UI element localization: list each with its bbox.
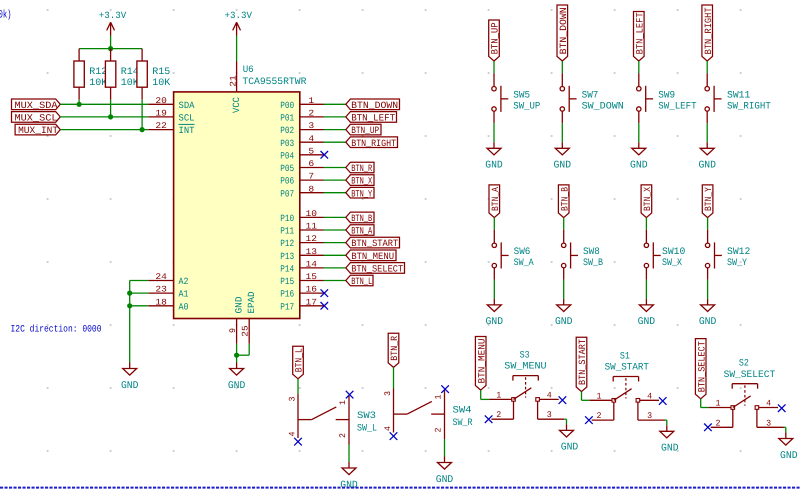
- junction +3.3V bus: [108, 46, 113, 51]
- svg-text:P13: P13: [280, 251, 294, 262]
- svg-text:1: 1: [338, 400, 348, 405]
- U6 pin 13 P13: [280, 247, 323, 262]
- svg-text:4: 4: [766, 399, 771, 409]
- wire A-bus vertical: [129, 281, 131, 363]
- pin wire lower: [707, 268, 709, 280]
- U6 pin 12 P12: [280, 234, 323, 249]
- svg-text:GND: GND: [121, 380, 139, 392]
- svg-text:17: 17: [306, 297, 318, 307]
- U6 pin 10 P10: [280, 209, 323, 224]
- svg-text:SW_B: SW_B: [583, 257, 603, 268]
- svg-text:13: 13: [306, 247, 318, 257]
- pin wire lower: [645, 268, 647, 280]
- no-connect S1 pin 2: [585, 416, 593, 424]
- global label BTN_DOWN: [557, 5, 569, 61]
- svg-text:SW_LEFT: SW_LEFT: [658, 101, 696, 112]
- svg-text:GND: GND: [233, 296, 244, 313]
- svg-text:SW_Y: SW_Y: [727, 257, 747, 268]
- svg-text:EPAD: EPAD: [246, 291, 257, 313]
- svg-text:BTN_START: BTN_START: [577, 339, 588, 385]
- ground (SW8): [555, 299, 573, 328]
- svg-text:5: 5: [308, 146, 314, 156]
- U6 pin 3 P02: [280, 121, 323, 136]
- wire switch to GND: [493, 280, 495, 299]
- pin wire upper: [707, 230, 709, 243]
- wire BTN_RIGHT: [324, 141, 346, 143]
- svg-text:4: 4: [288, 432, 298, 437]
- svg-text:BTN_Y: BTN_Y: [703, 187, 714, 211]
- wire S2 pin3 to GND: [784, 427, 786, 432]
- wire BTN_Y: [324, 192, 346, 194]
- wire BTN_UP to switch: [493, 61, 495, 73]
- wire BTN_A: [324, 229, 346, 231]
- svg-text:BTN_DOWN: BTN_DOWN: [558, 7, 569, 54]
- svg-text:GND: GND: [638, 316, 656, 328]
- wire BTN_UP: [324, 129, 346, 131]
- svg-text:SW_A: SW_A: [514, 257, 534, 268]
- svg-text:24: 24: [155, 272, 167, 282]
- switch SW8 SW_B: [562, 242, 604, 268]
- no-connect P17: [321, 302, 329, 310]
- U6 pin 25 EPAD: [241, 291, 257, 344]
- U6 pin 1 P00: [280, 96, 323, 111]
- svg-text:P11: P11: [280, 226, 294, 237]
- svg-text:P06: P06: [280, 176, 294, 187]
- global label BTN_A: [346, 225, 374, 237]
- global label BTN_MENU: [475, 337, 487, 391]
- ground (A pins): [121, 363, 139, 392]
- svg-text:SW3: SW3: [357, 410, 376, 421]
- junction MUX_INT/R15: [140, 127, 145, 132]
- resistor R15 10K: [137, 49, 171, 130]
- pin wire lower: [493, 111, 495, 123]
- global label BTN_R: [388, 333, 400, 367]
- svg-text:8: 8: [308, 184, 314, 194]
- svg-text:2: 2: [716, 418, 721, 428]
- svg-text:SW12: SW12: [727, 246, 750, 257]
- svg-text:+3.3V: +3.3V: [99, 10, 127, 21]
- svg-text:0k): 0k): [0, 10, 12, 22]
- wire BTN_A to switch: [493, 218, 495, 230]
- wire BTN_L: [324, 280, 346, 282]
- ground (S2): [779, 433, 798, 462]
- svg-text:R15: R15: [152, 66, 170, 77]
- global label BTN_START: [346, 237, 400, 249]
- U6 pin 4 P03: [280, 134, 323, 149]
- no-connect S2 pin 4: [778, 404, 786, 412]
- wire switch to GND: [563, 280, 565, 299]
- svg-text:BTN_RIGHT: BTN_RIGHT: [703, 7, 714, 54]
- global label BTN_RIGHT: [702, 5, 714, 61]
- svg-text:SW7: SW7: [582, 90, 599, 101]
- svg-text:BTN_LEFT: BTN_LEFT: [634, 12, 645, 54]
- svg-text:BTN_R: BTN_R: [389, 336, 400, 361]
- svg-text:11: 11: [306, 222, 318, 232]
- wire BTN_MENU to switch pin1: [481, 390, 490, 399]
- switch SW9 SW_LEFT: [637, 86, 697, 112]
- svg-text:4: 4: [308, 134, 314, 144]
- wire S3 pin3 to GND: [564, 419, 566, 424]
- pin wire lower: [561, 111, 563, 123]
- svg-text:SW_MENU: SW_MENU: [504, 361, 546, 372]
- U6 pin 5 P04: [280, 146, 323, 161]
- wire U6 GND pin: [236, 344, 238, 363]
- svg-text:19: 19: [155, 109, 167, 119]
- wire A2: [130, 280, 149, 282]
- global label BTN_X: [346, 175, 374, 187]
- note text I2C direction: 0000: [11, 323, 102, 334]
- svg-text:BTN_MENU: BTN_MENU: [351, 251, 394, 262]
- svg-text:INT: INT: [179, 125, 195, 136]
- svg-text:7: 7: [308, 172, 314, 182]
- U6 pin 2 P01: [280, 109, 323, 124]
- ground (SW5): [485, 142, 503, 171]
- svg-text:2: 2: [308, 109, 314, 119]
- junction GND/EPAD: [234, 353, 239, 358]
- no-connect S2 pin 2: [704, 424, 712, 432]
- svg-text:3: 3: [766, 418, 771, 428]
- wire SW4 pin2 to GND: [444, 439, 446, 457]
- pin wire upper: [493, 230, 495, 243]
- switch SW6 SW_A: [492, 242, 534, 268]
- global label BTN_LEFT: [346, 112, 397, 124]
- ground (SW6): [486, 299, 504, 328]
- wire BTN_L to switch: [297, 379, 299, 394]
- svg-text:23: 23: [155, 285, 167, 295]
- junction MUX_SDA/R12: [77, 102, 82, 107]
- svg-text:10K: 10K: [152, 77, 170, 88]
- wire switch to GND: [561, 123, 563, 142]
- svg-text:SW_R: SW_R: [453, 417, 473, 428]
- global label BTN_LEFT: [634, 12, 646, 62]
- global label MUX_INT: [15, 124, 60, 136]
- no-connect S3 pin 2: [485, 415, 493, 423]
- svg-text:BTN_Y: BTN_Y: [351, 188, 372, 199]
- svg-text:SW11: SW11: [727, 90, 750, 101]
- ground (SW11): [698, 142, 716, 171]
- U6 pin 24 A2: [148, 272, 188, 287]
- svg-text:P12: P12: [280, 238, 294, 249]
- svg-text:MUX_SDA: MUX_SDA: [15, 100, 58, 111]
- wire +3.3V stem: [110, 36, 112, 49]
- svg-text:10K: 10K: [121, 77, 139, 88]
- svg-text:12: 12: [306, 234, 318, 244]
- svg-text:S2: S2: [739, 358, 749, 369]
- svg-text:P17: P17: [280, 301, 294, 312]
- wire MUX_SCL: [60, 116, 148, 118]
- wire BTN_MENU: [324, 254, 346, 256]
- svg-text:P10: P10: [280, 213, 294, 224]
- svg-text:21: 21: [228, 75, 238, 87]
- svg-text:3: 3: [288, 397, 298, 402]
- svg-text:A2: A2: [179, 276, 189, 287]
- switch S2 SW_SELECT body: [709, 358, 784, 429]
- svg-text:SW_SELECT: SW_SELECT: [724, 369, 776, 380]
- global label BTN_UP: [489, 20, 501, 61]
- svg-text:BTN_L: BTN_L: [294, 348, 305, 372]
- svg-text:SW6: SW6: [514, 246, 531, 257]
- svg-text:I2C direction: 0000: I2C direction: 0000: [11, 323, 102, 334]
- wire MUX_SDA: [60, 103, 148, 105]
- svg-text:P16: P16: [280, 289, 294, 300]
- svg-text:VCC: VCC: [231, 97, 242, 113]
- ground (SW3): [340, 462, 358, 489]
- svg-text:P15: P15: [280, 276, 294, 287]
- svg-text:SW_START: SW_START: [605, 362, 650, 373]
- junction A0: [127, 303, 132, 308]
- U6 pin 16 P16: [280, 285, 323, 300]
- svg-text:P03: P03: [280, 138, 294, 149]
- pin wire upper: [638, 73, 640, 86]
- wire BTN_X: [324, 179, 346, 181]
- svg-text:4: 4: [647, 391, 652, 401]
- ground (SW4): [436, 457, 454, 486]
- U6 pin 15 P15: [280, 272, 323, 287]
- svg-text:BTN_R: BTN_R: [351, 163, 372, 174]
- no-connect SW4 pin 1: [441, 385, 449, 393]
- svg-text:S1: S1: [620, 350, 630, 361]
- svg-text:BTN_A: BTN_A: [351, 226, 372, 237]
- wire SW3 pin2 to GND: [348, 445, 350, 463]
- svg-text:SW8: SW8: [583, 246, 600, 257]
- ground (S3): [560, 424, 579, 453]
- svg-text:GND: GND: [228, 380, 246, 392]
- svg-text:9: 9: [228, 328, 238, 333]
- svg-text:MUX_SCL: MUX_SCL: [15, 113, 58, 124]
- global label BTN_Y: [702, 185, 714, 218]
- U6 pin 9 GND: [228, 296, 244, 344]
- pin wire lower: [638, 111, 640, 123]
- wire S1 pin3 to GND: [665, 420, 667, 425]
- wire BTN_R to switch: [393, 367, 395, 388]
- pin wire upper: [706, 73, 708, 86]
- global label BTN_A: [489, 185, 501, 218]
- svg-text:BTN_A: BTN_A: [490, 187, 501, 211]
- wire BTN_SELECT: [324, 267, 346, 269]
- svg-text:GND: GND: [698, 160, 716, 172]
- svg-text:6: 6: [308, 159, 314, 169]
- svg-text:1: 1: [308, 96, 314, 106]
- wire BTN_START: [324, 242, 346, 244]
- svg-text:1: 1: [716, 399, 721, 409]
- U6 pin 22 INT: [148, 121, 194, 136]
- svg-text:SW9: SW9: [658, 90, 675, 101]
- junction MUX_SCL/R14: [108, 114, 113, 119]
- ground (SW9): [630, 142, 648, 171]
- global label BTN_X: [641, 185, 653, 218]
- svg-text:P05: P05: [280, 163, 294, 174]
- wire BTN_RIGHT to switch: [706, 61, 708, 73]
- resistor R14 10K: [105, 49, 139, 117]
- U6 pin 8 P07: [280, 184, 323, 199]
- svg-text:S3: S3: [520, 349, 530, 360]
- svg-text:BTN_MENU: BTN_MENU: [476, 338, 487, 383]
- svg-text:GND: GND: [486, 316, 504, 328]
- svg-text:SCL: SCL: [179, 113, 195, 124]
- pin wire lower: [706, 111, 708, 123]
- svg-text:P07: P07: [280, 188, 294, 199]
- switch SW3 SW_L body: [288, 394, 378, 445]
- svg-text:GND: GND: [561, 442, 579, 454]
- svg-text:BTN_X: BTN_X: [351, 176, 372, 187]
- svg-text:3: 3: [547, 410, 552, 420]
- global label BTN_B: [558, 185, 570, 218]
- svg-text:P04: P04: [280, 150, 294, 161]
- svg-text:P01: P01: [280, 113, 294, 124]
- svg-text:BTN_B: BTN_B: [351, 213, 372, 224]
- wire MUX_INT: [60, 129, 148, 131]
- wire resistor-top bus: [79, 48, 142, 50]
- svg-text:BTN_DOWN: BTN_DOWN: [351, 100, 398, 111]
- svg-text:2: 2: [433, 428, 443, 433]
- svg-text:BTN_X: BTN_X: [642, 187, 653, 211]
- wire BTN_B: [324, 216, 346, 218]
- global label BTN_START: [576, 337, 588, 391]
- svg-text:A1: A1: [179, 289, 189, 300]
- U6 pin 6 P05: [280, 159, 323, 174]
- sheet border: [0, 487, 800, 489]
- switch SW4 SW_R body: [383, 389, 473, 440]
- global label BTN_B: [346, 212, 374, 224]
- no-connect S1 pin 4: [659, 397, 667, 405]
- svg-text:SW_UP: SW_UP: [513, 101, 540, 112]
- svg-text:SW_DOWN: SW_DOWN: [582, 101, 624, 112]
- switch SW7 SW_DOWN: [560, 86, 624, 112]
- no-connect S3 pin 4: [559, 396, 567, 404]
- svg-text:SW_RIGHT: SW_RIGHT: [727, 101, 771, 112]
- U6 pin 19 SCL: [148, 109, 194, 124]
- svg-text:GND: GND: [699, 316, 717, 328]
- no-connect P04: [321, 151, 329, 159]
- global label BTN_SELECT: [346, 263, 405, 275]
- wire BTN_X to switch: [645, 218, 647, 230]
- svg-text:BTN_L: BTN_L: [351, 276, 372, 287]
- wire BTN_DOWN to switch: [561, 61, 563, 73]
- wire BTN_R: [324, 167, 346, 169]
- global label MUX_SDA: [12, 99, 61, 111]
- svg-text:TCA9555RTWR: TCA9555RTWR: [242, 76, 306, 87]
- svg-text:SW4: SW4: [453, 405, 472, 416]
- switch SW5 SW_UP: [492, 86, 541, 112]
- ground (SW10): [638, 299, 656, 328]
- global label BTN_RIGHT: [346, 137, 398, 149]
- svg-text:GND: GND: [630, 160, 648, 172]
- svg-text:4: 4: [547, 390, 552, 400]
- wire BTN_LEFT to switch: [638, 61, 640, 73]
- svg-text:BTN_SELECT: BTN_SELECT: [351, 264, 403, 275]
- pin wire lower: [493, 268, 495, 280]
- U6 pin 21 VCC: [228, 62, 242, 114]
- pin wire upper: [493, 73, 495, 86]
- pin wire upper: [561, 73, 563, 86]
- global label BTN_DOWN: [346, 99, 400, 111]
- svg-text:2: 2: [597, 411, 602, 421]
- U6 pin 17 P17: [280, 297, 323, 312]
- wire switch to GND: [706, 123, 708, 142]
- junction A1: [127, 291, 132, 296]
- wire BTN_Y to switch: [707, 218, 709, 230]
- svg-text:BTN_LEFT: BTN_LEFT: [351, 113, 395, 124]
- global label BTN_R: [346, 162, 374, 174]
- svg-text:BTN_RIGHT: BTN_RIGHT: [351, 138, 396, 149]
- svg-text:U6: U6: [243, 64, 254, 75]
- wire BTN_B to switch: [563, 218, 565, 230]
- svg-text:10: 10: [306, 209, 318, 219]
- svg-text:2: 2: [496, 410, 501, 420]
- svg-text:R14: R14: [121, 66, 139, 77]
- U6 pin 14 P14: [280, 260, 323, 275]
- wire switch to GND: [493, 123, 495, 142]
- svg-text:BTN_START: BTN_START: [351, 238, 398, 249]
- svg-text:3: 3: [383, 391, 393, 396]
- svg-text:22: 22: [155, 121, 167, 131]
- global label BTN_L: [346, 275, 373, 287]
- ground (SW12): [699, 299, 717, 328]
- svg-text:2: 2: [338, 433, 348, 438]
- wire switch to GND: [645, 280, 647, 299]
- no-connect P16: [321, 289, 329, 297]
- switch SW11 SW_RIGHT: [705, 86, 771, 112]
- wire BTN_SELECT to switch pin1: [701, 399, 709, 408]
- pin wire upper: [645, 230, 647, 243]
- U6 pin 18 A0: [148, 297, 188, 312]
- svg-text:GND: GND: [555, 316, 573, 328]
- wire BTN_LEFT: [324, 116, 346, 118]
- power +3.3V (resistor bank): [99, 10, 127, 36]
- U6 pin 23 A1: [148, 285, 188, 300]
- svg-text:3: 3: [308, 121, 314, 131]
- switch SW10 SW_X: [644, 242, 685, 268]
- svg-text:1: 1: [496, 390, 501, 400]
- global label MUX_SCL: [12, 112, 61, 124]
- svg-text:25: 25: [241, 325, 251, 337]
- note text 0k): [0, 10, 12, 22]
- svg-text:BTN_B: BTN_B: [559, 187, 570, 211]
- svg-text:BTN_UP: BTN_UP: [351, 125, 379, 136]
- global label BTN_L: [293, 346, 305, 379]
- svg-text:SW5: SW5: [513, 90, 530, 101]
- svg-text:14: 14: [306, 260, 318, 270]
- svg-text:GND: GND: [780, 450, 798, 462]
- wire switch to GND: [638, 123, 640, 142]
- switch S3 SW_MENU body: [489, 349, 564, 420]
- svg-text:GND: GND: [436, 474, 454, 486]
- svg-text:18: 18: [155, 297, 167, 307]
- ground (U6): [228, 363, 246, 392]
- ground (SW7): [554, 142, 572, 171]
- power +3.3V (VCC): [225, 10, 253, 36]
- global label BTN_UP: [346, 124, 381, 136]
- global label BTN_MENU: [346, 250, 396, 262]
- svg-text:3: 3: [647, 411, 652, 421]
- svg-text:P02: P02: [280, 125, 294, 136]
- svg-text:+3.3V: +3.3V: [225, 10, 253, 21]
- svg-text:BTN_UP: BTN_UP: [490, 22, 501, 54]
- resistor R12 10K: [74, 49, 108, 105]
- no-connect SW3 pin 1: [346, 391, 354, 399]
- svg-text:10K: 10K: [89, 77, 107, 88]
- pin wire lower: [563, 268, 565, 280]
- svg-text:BTN_SELECT: BTN_SELECT: [696, 341, 707, 392]
- switch SW12 SW_Y: [705, 242, 750, 268]
- svg-text:GND: GND: [661, 443, 679, 455]
- no-connect SW4 pin 4: [390, 432, 398, 440]
- U6 pin 11 P11: [280, 222, 323, 237]
- wire A1: [130, 292, 149, 294]
- op IC U6 TCA9555RTWR body: [174, 64, 307, 319]
- svg-text:4: 4: [383, 426, 393, 431]
- svg-text:GND: GND: [554, 160, 572, 172]
